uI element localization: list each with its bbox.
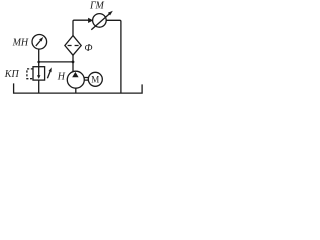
wire: motor ГМ inlet line and riser down to filter top (73, 20, 89, 35)
filter element (dashed) (68, 45, 79, 47)
svg-text:ГМ: ГМ (89, 1, 104, 12)
wire: valve drain to tank (38, 80, 40, 93)
junction node gauge/valve tee (37, 61, 40, 64)
valve spring adjustment arrow (47, 67, 51, 78)
variable-displacement arrow through motor (91, 11, 113, 30)
shaft coupling pump to motor (85, 78, 89, 81)
valve internal arrow (37, 67, 40, 79)
filter Ф diamond (65, 36, 81, 56)
pressure gauge МН (32, 35, 47, 50)
wire: gauge down through tee to valve top (38, 49, 40, 67)
svg-text:М: М (91, 74, 99, 84)
wire: motor outlet to right edge and down to tank (106, 20, 121, 93)
wire: tee across to gauge column (39, 61, 73, 63)
svg-text:Н: Н (57, 71, 66, 82)
pump flow triangle (72, 72, 78, 77)
pump Н (67, 71, 84, 88)
svg-text:Ф: Ф (84, 43, 92, 54)
junction node filter/pump/gauge tee (72, 61, 75, 64)
wire: pump suction to tank (75, 88, 77, 93)
wire: filter bottom to pump inlet (72, 55, 74, 72)
svg-text:МН: МН (12, 37, 29, 48)
electric motor М (88, 72, 102, 86)
hydraulic motor ГМ (93, 14, 107, 28)
valve pilot line (dashed) (27, 69, 33, 79)
svg-text:КП: КП (4, 69, 20, 80)
flow triangle on motor inlet (88, 18, 93, 23)
tank (reservoir) (14, 83, 143, 93)
gauge needle (36, 37, 43, 46)
relief valve КП body (33, 67, 45, 80)
